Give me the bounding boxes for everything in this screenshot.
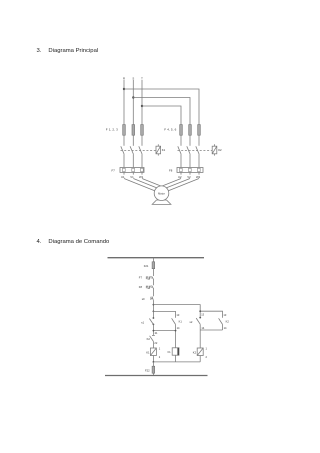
mechanical link dashes K1 — [121, 149, 157, 151]
svg-text:4.: 4. — [37, 239, 42, 245]
svg-text:U2: U2 — [178, 175, 182, 179]
svg-text:1: 1 — [206, 347, 208, 351]
fuse F3 — [141, 125, 144, 136]
junction lamp tap — [175, 330, 177, 332]
wire K2 leg to coil — [199, 330, 201, 348]
seal contact K2 13-14 — [219, 318, 223, 330]
overload F8 heater 1 — [180, 168, 183, 171]
motor base pedestal — [152, 200, 171, 204]
wire K2 coil to bottom node — [199, 356, 201, 362]
svg-text:W2: W2 — [196, 175, 201, 179]
wire seal2 top — [200, 311, 222, 318]
label F8 — [139, 285, 143, 289]
wire motor lead right 3 — [162, 179, 200, 194]
junction node A — [153, 304, 155, 306]
label 13 seal2 — [223, 313, 226, 317]
wire seal1 top — [153, 311, 175, 317]
wire motor lead right 1 — [160, 179, 181, 187]
label F21 — [144, 264, 149, 268]
svg-text:K1: K1 — [162, 148, 166, 152]
label A2 — [159, 355, 161, 359]
label A1 — [159, 347, 161, 351]
label 14 seal2 — [224, 326, 227, 330]
svg-text:Diagrama Principal: Diagrama Principal — [48, 48, 98, 54]
label F8 — [169, 169, 173, 173]
label H1 — [168, 350, 171, 354]
coil K2 — [197, 348, 203, 356]
overload trip contact F8 — [146, 285, 153, 289]
fuse F21 — [152, 262, 155, 269]
overload F7 heater 1 — [123, 168, 126, 171]
node R label — [123, 77, 125, 81]
svg-text:13: 13 — [223, 313, 226, 317]
svg-text:s1: s1 — [141, 320, 144, 324]
overload F8 heater 2 — [189, 168, 192, 171]
wire fuse F6 to contact — [198, 135, 200, 146]
label F22 — [145, 368, 150, 372]
svg-text:F22: F22 — [145, 368, 150, 372]
svg-text:2: 2 — [159, 355, 161, 359]
contactor K1 drive box — [156, 144, 161, 155]
overload relay F7 box — [120, 168, 144, 173]
pushbutton S1 (NO) — [149, 319, 153, 325]
label K1 seal1 — [179, 319, 183, 323]
wire fuse F3 to contact — [141, 135, 143, 146]
svg-text:22: 22 — [154, 341, 157, 345]
label K2 — [218, 148, 222, 152]
wire fuse F5 to contact — [189, 135, 191, 146]
svg-text:3.: 3. — [37, 48, 42, 54]
fuse F6 — [198, 125, 201, 136]
wire F22 to bottom bus — [152, 373, 154, 375]
junction S2 top — [199, 317, 201, 319]
svg-text:K2: K2 — [226, 319, 230, 323]
svg-text:h1: h1 — [168, 350, 171, 354]
contactor K2 pole 2 — [187, 146, 190, 167]
wire node A to K2 leg — [153, 305, 200, 312]
svg-text:U1: U1 — [121, 175, 125, 179]
wire F8 to S0 — [152, 289, 154, 297]
wire S1 to rejoin — [152, 324, 154, 334]
overload relay F8 box — [177, 168, 203, 173]
terminal labels U2 V2 W2 — [178, 175, 201, 179]
svg-text:F8: F8 — [139, 285, 143, 289]
overload F7 heater 2 — [132, 168, 135, 171]
wire H1 to bottom node — [175, 355, 177, 362]
wire K1 coil to bottom node — [152, 356, 154, 362]
control bottom bus — [105, 375, 208, 377]
label A1 K2 — [206, 347, 208, 351]
label S1 — [141, 320, 144, 324]
wire F21 to F7 — [152, 269, 154, 276]
wire motor lead right 2 — [162, 179, 191, 190]
wire common bottom — [153, 361, 200, 363]
wire F7 to F8 — [152, 280, 154, 286]
terminal labels U1 V1 W1 — [121, 175, 144, 179]
label 13 S2 — [201, 313, 204, 317]
svg-text:s2: s2 — [190, 320, 193, 324]
wire fuse F2 to contact — [132, 135, 134, 146]
wire lamp branch — [175, 331, 177, 348]
svg-text:21: 21 — [155, 331, 158, 335]
fuse F1 — [123, 125, 126, 136]
svg-text:K2: K2 — [193, 350, 197, 354]
title section 4 — [37, 239, 111, 245]
node S label — [132, 77, 134, 81]
svg-text:2: 2 — [206, 355, 208, 359]
label K2 interlock — [147, 337, 151, 341]
motor M1 circle — [154, 186, 169, 201]
pushbutton S0 (NC) — [151, 297, 154, 301]
title section 3 — [37, 48, 99, 54]
contactor K1 pole 3 — [139, 146, 142, 167]
svg-text:14: 14 — [177, 326, 180, 330]
wire node to S1 — [152, 311, 154, 318]
junction seal tap leg1 — [153, 311, 155, 313]
fuse F5 — [189, 125, 192, 136]
label F7 — [139, 276, 143, 280]
svg-text:K1: K1 — [179, 319, 183, 323]
contactor K2 pole 1 — [178, 146, 181, 167]
wire to F22 — [152, 362, 154, 366]
wire rejoin leg2 — [200, 329, 222, 331]
svg-text:F 1, 2, 3: F 1, 2, 3 — [106, 128, 118, 132]
junction seal tap leg2 — [199, 310, 201, 312]
label F7 — [112, 169, 116, 173]
svg-text:Diagrama de Comando: Diagrama de Comando — [48, 239, 110, 245]
fuse F22 — [152, 366, 155, 373]
svg-text:K2: K2 — [218, 148, 222, 152]
junction S1 top — [153, 317, 155, 319]
node T label — [141, 77, 143, 81]
svg-text:13: 13 — [201, 313, 204, 317]
junction bottom leg1 — [153, 361, 155, 363]
wire motor lead left 2 — [133, 179, 161, 190]
contactor K2 pole 3 — [196, 146, 199, 167]
control top bus — [108, 257, 205, 259]
svg-text:1: 1 — [159, 347, 161, 351]
junction dot R — [123, 88, 125, 90]
svg-text:13: 13 — [176, 313, 179, 317]
contactor K2 drive box — [212, 144, 217, 155]
mechanical link dashes K2 — [178, 149, 213, 151]
fuse F2 — [132, 125, 135, 136]
svg-text:14: 14 — [224, 326, 227, 330]
wire phase R vertical — [123, 80, 125, 125]
wire R tap to right branch — [124, 89, 199, 125]
label 22 — [154, 341, 157, 345]
label K2 coil — [193, 350, 197, 354]
svg-text:Motor: Motor — [158, 191, 165, 195]
wire motor lead left 1 — [124, 179, 162, 194]
coil K1 — [150, 348, 156, 356]
pushbutton S2 (NO) — [196, 311, 200, 330]
interlock contact K2 21-22 (NC) — [150, 335, 155, 348]
overload trip contact F7 — [146, 276, 153, 280]
svg-text:F7: F7 — [139, 276, 143, 280]
label 14 S2 — [201, 326, 204, 330]
wire phase S vertical — [132, 80, 134, 125]
junction dot T — [141, 105, 143, 107]
wire motor lead left 3 — [142, 179, 163, 187]
contactor K1 pole 1 — [121, 146, 124, 167]
contactor K1 pole 2 — [130, 146, 133, 167]
wire S tap to right branch — [133, 98, 190, 125]
wire phase T vertical — [141, 80, 143, 125]
wire bus to F21 — [152, 258, 154, 262]
svg-text:K2: K2 — [147, 337, 151, 341]
svg-text:F 4, 5, 6: F 4, 5, 6 — [164, 128, 176, 132]
label 14 seal1 — [177, 326, 180, 330]
lamp H1 — [172, 348, 179, 355]
wire rejoin leg1 — [153, 330, 175, 332]
label 13 seal1 — [176, 313, 179, 317]
wire T tap to right branch — [142, 106, 181, 125]
label A2 K2 — [206, 355, 208, 359]
junction rejoin leg1 — [153, 330, 155, 332]
label K1 coil — [146, 350, 150, 354]
junction S1 bottom — [153, 324, 155, 326]
svg-text:F7: F7 — [112, 169, 116, 173]
wire fuse F4 to contact — [180, 135, 182, 146]
svg-text:s0: s0 — [142, 297, 145, 301]
svg-text:F21: F21 — [144, 264, 149, 268]
label S2 — [190, 320, 193, 324]
overload F8 heater 3 — [198, 168, 201, 171]
label 21 — [155, 331, 158, 335]
wire fuse F1 to contact — [123, 135, 125, 146]
wire F7 box to terminals — [124, 172, 142, 174]
fuse group label F 4,5,6 — [164, 128, 176, 132]
wire F8 box to terminals — [181, 172, 199, 174]
svg-text:K1: K1 — [146, 350, 150, 354]
wire S0 to node A — [152, 301, 154, 312]
label S0 — [142, 297, 145, 301]
fuse F4 — [180, 125, 183, 136]
junction dot S — [132, 96, 134, 98]
svg-text:F8: F8 — [169, 169, 173, 173]
svg-text:W1: W1 — [139, 175, 144, 179]
overload F7 heater 3 — [141, 168, 144, 171]
svg-text:V2: V2 — [187, 175, 191, 179]
label K1 — [162, 148, 166, 152]
fuse group label F 1,2,3 — [106, 128, 118, 132]
seal contact K1 13-14 — [172, 318, 176, 330]
label K2 seal2 — [226, 319, 230, 323]
motor label — [158, 191, 165, 195]
